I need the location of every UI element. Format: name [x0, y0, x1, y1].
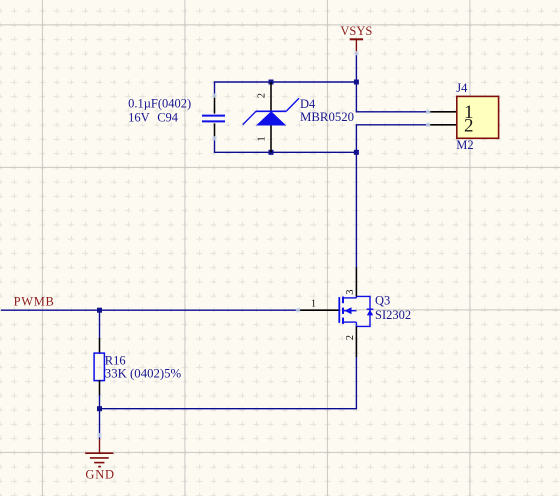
capacitor C94	[128, 96, 225, 139]
wire top rail	[214, 81, 357, 83]
wire bottom rail	[214, 151, 357, 153]
node top rail / diode	[269, 80, 274, 85]
svg-text:1: 1	[256, 136, 267, 141]
svg-text:2: 2	[464, 116, 474, 137]
wire cap top branch	[214, 82, 216, 96]
svg-text:D4: D4	[300, 97, 316, 111]
svg-text:J4: J4	[456, 81, 468, 95]
resistor R16	[94, 338, 181, 395]
wire PWMB to Q3 gate	[1, 309, 298, 311]
svg-text:33K (0402)5%: 33K (0402)5%	[105, 367, 182, 381]
power port VSYS	[340, 24, 372, 55]
node PWMB / R16	[97, 308, 102, 313]
wire GND stem	[99, 409, 101, 439]
svg-text:GND: GND	[85, 468, 114, 482]
svg-text:1: 1	[311, 298, 316, 309]
wire Q3 source to R16 bottom node	[100, 357, 357, 409]
node bottom rail / diode	[269, 150, 274, 155]
svg-text:R16: R16	[105, 354, 126, 368]
ground	[85, 439, 115, 482]
svg-text:3: 3	[345, 290, 356, 295]
wire J4 pin 2 to Q3 drain	[356, 125, 428, 268]
node source wire / R16 / GND	[97, 406, 102, 411]
node bottom rail / drain column	[354, 150, 359, 155]
transistor Q3	[298, 268, 411, 358]
wire cap bottom branch	[214, 138, 216, 152]
svg-text:M2: M2	[456, 138, 473, 152]
svg-text:0.1µF(0402): 0.1µF(0402)	[128, 96, 191, 110]
svg-text:MBR0520: MBR0520	[300, 110, 354, 124]
wire top node to J4 pin 1	[356, 82, 428, 112]
wire R16 top	[99, 310, 101, 338]
svg-text:SI2302: SI2302	[375, 308, 411, 322]
node top rail / VSYS	[354, 80, 359, 85]
svg-text:Q3: Q3	[375, 294, 390, 308]
connector J4	[428, 81, 498, 152]
svg-text:2: 2	[256, 93, 267, 98]
svg-text:2: 2	[345, 335, 356, 340]
svg-text:VSYS: VSYS	[340, 24, 372, 38]
wire VSYS stem to top rail	[355, 54, 357, 82]
pin end markers	[97, 51, 430, 437]
wire R16 bottom	[99, 395, 101, 410]
diode D4	[243, 82, 354, 152]
svg-text:PWMB: PWMB	[14, 295, 55, 309]
